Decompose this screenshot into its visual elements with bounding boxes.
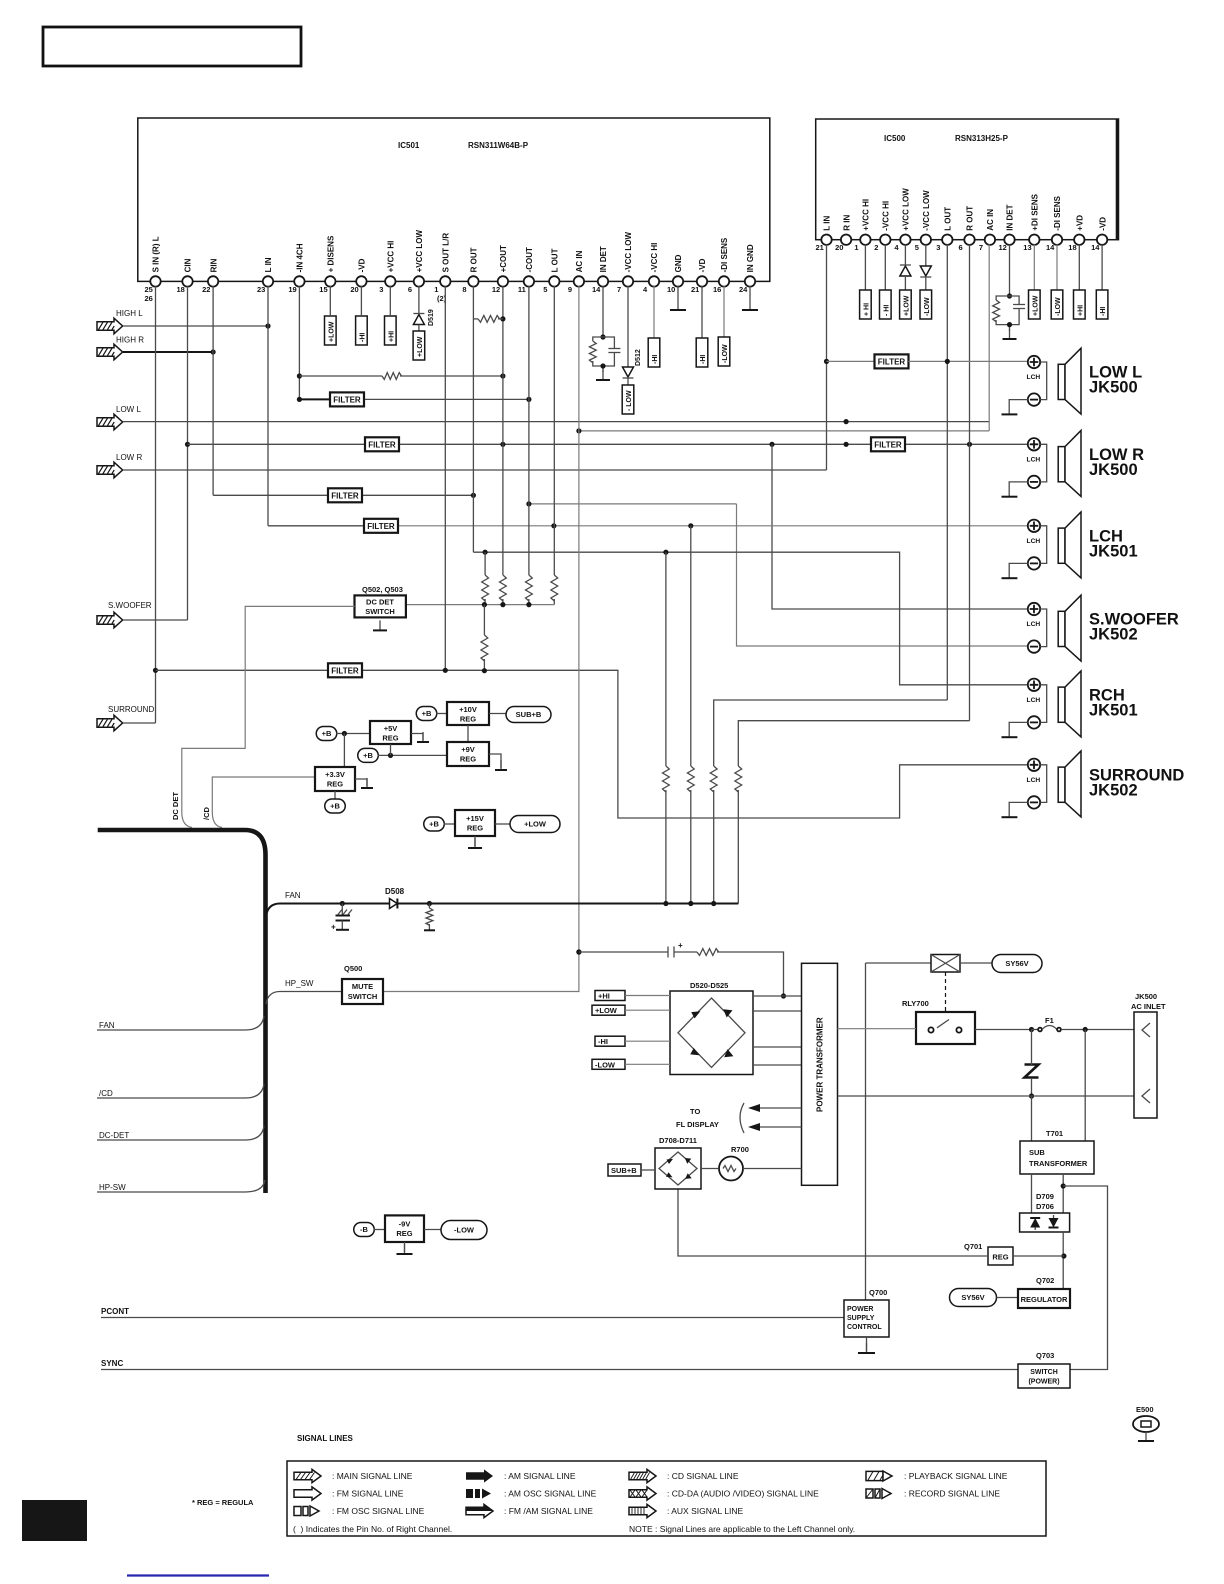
svg-text:POWER TRANSFORMER: POWER TRANSFORMER (816, 1017, 825, 1112)
svg-text:- HI: - HI (883, 305, 890, 316)
svg-text:+HI: +HI (598, 992, 610, 1001)
IC500 pin 20 R IN (835, 214, 851, 252)
legend FM SIGNAL LINE (294, 1487, 404, 1500)
node +COUT row319 (500, 316, 505, 321)
svg-text:-VCC HI: -VCC HI (650, 243, 659, 273)
wire pin21 (701, 286, 703, 338)
IC500 pin 7 AC IN (979, 209, 995, 253)
wire 5v gnd lead (411, 734, 423, 741)
svg-text:T701: T701 (1046, 1129, 1063, 1138)
wire bridge-pt 996 (753, 995, 802, 997)
svg-text:14: 14 (1046, 243, 1055, 252)
svg-text:+LOW: +LOW (328, 321, 335, 342)
wire ic500 pin19 (1101, 244, 1103, 290)
diode D519 (413, 314, 424, 325)
resistor R (det) (481, 635, 488, 661)
wire pin7 a (627, 286, 629, 367)
ground -9V REG (397, 1244, 413, 1254)
svg-text:HP-SW: HP-SW (99, 1183, 126, 1192)
node indet bottom (600, 363, 605, 368)
capacitor C (fan, polarized) (331, 904, 352, 932)
svg-text:R700: R700 (731, 1145, 749, 1154)
filter FILTER (rch pre) (328, 488, 362, 502)
svg-text:3: 3 (936, 243, 940, 252)
svg-text:FILTER: FILTER (368, 440, 396, 449)
wire xbox to oval (960, 962, 992, 964)
svg-text:15: 15 (319, 285, 327, 294)
svg-text:REG: REG (382, 734, 398, 743)
wire lowr row c (906, 443, 1028, 445)
IC500 pin 13 +DI SENS (1023, 193, 1039, 252)
IC501 pin 24 IN GND (739, 244, 755, 294)
wire L OUT res bot (553, 599, 555, 605)
node S IN / FILTER junction (153, 668, 158, 673)
svg-text:: CD SIGNAL LINE: : CD SIGNAL LINE (667, 1471, 739, 1481)
IC501 pin 14 IN DET (592, 246, 608, 294)
wire ic500 pin5 b (925, 277, 927, 290)
wire bridge in -LOW (625, 1063, 670, 1065)
wire HIGH R to RIN (123, 351, 213, 353)
svg-text:+LOW: +LOW (595, 1006, 618, 1015)
svg-text:S IN (R) L: S IN (R) L (152, 236, 161, 272)
title box (43, 27, 301, 66)
wire PCONT (101, 1317, 844, 1319)
svg-text:: AUX SIGNAL LINE: : AUX SIGNAL LINE (667, 1506, 744, 1516)
svg-text:LCH: LCH (1027, 538, 1041, 545)
wire S IN vertical pin25 (155, 286, 157, 723)
svg-text:D519: D519 (428, 309, 435, 326)
wire fan row b (397, 903, 738, 905)
svg-text:IC501: IC501 (398, 141, 420, 150)
svg-text:HIGH L: HIGH L (116, 309, 143, 318)
svg-text:RSN311W64B-P: RSN311W64B-P (468, 141, 529, 150)
filter FILTER (low r pre) (365, 437, 399, 451)
svg-text:R IN: R IN (842, 214, 851, 230)
svg-text:JK500: JK500 (1089, 461, 1138, 479)
wire bridge-pt 1047 (753, 1046, 802, 1048)
wire lch row (399, 525, 1028, 527)
svg-text:FILTER: FILTER (333, 395, 361, 404)
resistor R (sub-b) (697, 949, 719, 956)
terminal E500 chassis (1133, 1416, 1159, 1441)
svg-text:(POWER): (POWER) (1028, 1379, 1059, 1386)
svg-text:: FM /AM SIGNAL LINE: : FM /AM SIGNAL LINE (504, 1506, 593, 1516)
IC500 pin 5 -VCC LOW (915, 190, 931, 252)
fuse/thermal X box (931, 955, 960, 973)
svg-text:-LOW: -LOW (454, 1226, 475, 1235)
svg-text:18: 18 (1068, 243, 1076, 252)
wire R OUT(ic500) vertical (969, 244, 971, 720)
node L IN lowl junction (824, 359, 829, 364)
ground GND pin10 (670, 300, 686, 310)
wire /CD port (97, 1084, 264, 1098)
relay RLY700 (916, 1012, 975, 1044)
fuse F1 (1032, 1026, 1135, 1032)
IC501 pin 21 -VD (691, 258, 707, 294)
wire pin24 gnd (749, 286, 751, 300)
svg-text:+HI: +HI (1077, 305, 1084, 316)
IC501 pin 11 -COUT (518, 247, 534, 294)
ground power supply control (858, 1343, 875, 1353)
value box +LOW (pin15) (325, 316, 337, 345)
wire DC-DET port (97, 1126, 264, 1140)
IC501 pin 8 R OUT (462, 247, 478, 294)
node res bottoms 3 (526, 602, 531, 607)
wire -b 9v (374, 1229, 385, 1231)
ground IN GND pin24 (742, 300, 758, 310)
diodes D709 D706 (1020, 1213, 1070, 1232)
legend box (287, 1461, 1046, 1536)
wire colC b (713, 790, 715, 904)
speaker jack SURROUND JK502 (1002, 751, 1185, 817)
wire swoofer minus path (737, 504, 1028, 646)
legend MAIN SIGNAL LINE (294, 1469, 413, 1482)
regulator +15V REG (455, 810, 495, 836)
wire bridge in +HI (625, 995, 670, 997)
svg-text:FL DISPLAY: FL DISPLAY (676, 1120, 719, 1129)
wire bridge-pt 1011 (753, 1010, 802, 1012)
svg-text:25: 25 (145, 285, 153, 294)
node R OUT row490 (471, 493, 476, 498)
svg-text:SYNC: SYNC (101, 1359, 123, 1368)
svg-text:-9V: -9V (399, 1220, 411, 1229)
bridge rectifier D708-D711 (655, 1148, 701, 1189)
wire xbox lead (866, 962, 932, 964)
svg-text:+DI SENS: +DI SENS (1031, 193, 1040, 230)
wire LOW R row (123, 469, 827, 471)
terminal SY56V (q702) (950, 1289, 997, 1307)
wire pin6 b (418, 325, 420, 332)
svg-text:AC IN: AC IN (575, 250, 584, 272)
svg-text:26: 26 (145, 294, 153, 303)
wire +COUT vertical (502, 286, 504, 575)
node bridge out (781, 993, 786, 998)
wire ic500 pin5 a (925, 244, 927, 266)
svg-text:REG: REG (992, 1253, 1008, 1262)
svg-text:6: 6 (408, 285, 412, 294)
value box -LOW (bridge in) (592, 1059, 625, 1069)
svg-text:-LOW: -LOW (1055, 297, 1062, 316)
svg-text:20: 20 (350, 285, 358, 294)
node +b branch (342, 731, 347, 736)
svg-text:JK502: JK502 (1089, 626, 1138, 644)
svg-text:FILTER: FILTER (367, 522, 395, 531)
capacitor C (ic500 in det) (1013, 305, 1025, 309)
wire -IN 4CH vertical pin19 (298, 286, 300, 399)
wire pt ac2 (838, 1095, 1135, 1097)
IC501 pin 16 -DI SENS (713, 237, 729, 294)
svg-text:R OUT: R OUT (966, 206, 975, 231)
wire lowl filter row a (827, 360, 875, 362)
svg-text:CIN: CIN (184, 258, 193, 272)
terminal SUB+B (506, 707, 551, 723)
wire dcdet out row (406, 604, 554, 606)
IC500 pin 4 +VCC LOW (894, 188, 910, 252)
wire dashed relay (945, 972, 947, 1012)
wire colB net (690, 526, 692, 766)
surge absorber Z (1025, 1065, 1039, 1078)
svg-text:9: 9 (568, 285, 572, 294)
node ic500 indet bottom (1007, 322, 1012, 327)
wire /CD net (212, 777, 315, 812)
blue footer line (127, 1574, 269, 1576)
wire AC link row (579, 430, 989, 432)
input arrow HIGH R (97, 344, 123, 360)
wire q701 left net (678, 1189, 988, 1256)
value box -LOW (pin7) (622, 385, 634, 414)
wire ic500 indet frame (996, 296, 1019, 331)
svg-text:HIGH R: HIGH R (116, 336, 144, 345)
legend FM /AM SIGNAL LINE (466, 1504, 593, 1517)
node fan colC (711, 901, 716, 906)
svg-text:REG: REG (327, 780, 343, 789)
svg-text:-VCC LOW: -VCC LOW (624, 232, 633, 273)
svg-text:FILTER: FILTER (331, 666, 359, 675)
svg-text:10: 10 (667, 285, 675, 294)
connector JK500 AC INLET (1134, 1012, 1157, 1118)
svg-text:: PLAYBACK SIGNAL LINE: : PLAYBACK SIGNAL LINE (904, 1471, 1008, 1481)
svg-text:: AM SIGNAL LINE: : AM SIGNAL LINE (504, 1471, 576, 1481)
svg-text:+VCC LOW: +VCC LOW (902, 188, 911, 231)
wire t701 sec 1 (1031, 1174, 1033, 1215)
resistor R (ic500 in det) (993, 300, 1000, 322)
wire filter1 out (365, 398, 529, 400)
wire bridge-pt 1065 (753, 1064, 802, 1066)
resistor R (in det) (589, 341, 596, 363)
node q703 branch (1061, 1183, 1066, 1188)
svg-text:: AM OSC SIGNAL LINE: : AM OSC SIGNAL LINE (504, 1489, 597, 1499)
input arrow S.WOOFER (97, 612, 123, 628)
node rch colA (663, 550, 668, 555)
wire q703 net (1063, 1186, 1107, 1370)
svg-text:LCH: LCH (1027, 697, 1041, 704)
wire S OUT vertical (444, 286, 446, 670)
svg-text:Q703: Q703 (1036, 1351, 1054, 1360)
svg-text:+15V: +15V (466, 814, 484, 823)
node f1 right (1083, 1027, 1088, 1032)
svg-text:DC DET: DC DET (366, 598, 394, 607)
wire -COUT vertical (528, 286, 530, 575)
wire feedback row b (400, 375, 503, 377)
speaker jack LOW L JK500 (1002, 348, 1143, 414)
wire pin3 (389, 286, 391, 316)
svg-text:-HI: -HI (359, 333, 366, 342)
wire relay to f1 (975, 1029, 1032, 1031)
wire fan res stub (428, 904, 430, 909)
legend AUX SIGNAL LINE (629, 1504, 744, 1517)
wire filter3 lead (213, 494, 327, 496)
legend CD-DA (AUDIO /VIDEO) SIGNAL LINE (629, 1487, 819, 1500)
input arrow HIGH L (97, 318, 123, 334)
diode D (ic500 +vcc low) (900, 265, 911, 276)
node res bottoms 1 (482, 602, 487, 607)
node -COUT row399 (526, 397, 531, 402)
wire rout res lead (498, 318, 503, 320)
svg-text:L OUT: L OUT (551, 248, 560, 272)
legend FM OSC SIGNAL LINE (294, 1506, 425, 1516)
svg-text:Q500: Q500 (344, 964, 362, 973)
resistor R (-COUT load) (526, 575, 533, 601)
svg-text:+B: +B (429, 820, 439, 829)
op-amp IC501 RSN311W64B-P block (138, 118, 770, 281)
wire ic500 pin1 (864, 244, 866, 290)
wire lowl filter row b (909, 360, 1028, 362)
wire colA b (665, 790, 667, 904)
wire ic500 pin18 (1078, 244, 1080, 290)
wire 15v out (495, 823, 510, 825)
wire filter1 lead (299, 398, 329, 400)
node ic500 indet top (1007, 293, 1012, 298)
svg-text:SUB: SUB (1029, 1148, 1045, 1157)
resistor R (rout-cout) (478, 316, 500, 323)
wire HP-SW port (97, 1180, 265, 1192)
ground +5V REG (417, 732, 429, 742)
svg-text:5: 5 (543, 285, 547, 294)
wire indet net frame (593, 337, 615, 372)
svg-text:7: 7 (617, 285, 621, 294)
filter FILTER (lch) (364, 519, 398, 533)
svg-text:-DI SENS: -DI SENS (720, 237, 729, 272)
value box -LOW (ic500 pin5) (920, 290, 932, 319)
svg-text:19: 19 (288, 285, 296, 294)
svg-text:+ HI: + HI (863, 303, 870, 316)
node S OUT filter5 (443, 668, 448, 673)
wire z top (1031, 1030, 1033, 1067)
svg-text:+B: +B (322, 729, 332, 738)
value box -HI (ic500 pin2) (880, 290, 892, 319)
svg-text:6: 6 (959, 243, 963, 252)
wire subb row a (579, 951, 668, 953)
wire pin6 a (418, 286, 420, 313)
wire FAN net (266, 904, 390, 917)
wire pin16 (723, 286, 725, 337)
wire filter4 lead (268, 525, 363, 527)
svg-text:GND: GND (674, 254, 683, 272)
ground in det (596, 370, 610, 380)
wire feedback row (299, 375, 382, 377)
svg-text:8: 8 (462, 285, 466, 294)
IC501 pin 22 RIN (202, 258, 218, 294)
resistor R (rch divider 1) (482, 575, 489, 601)
svg-text:-VD: -VD (698, 258, 707, 272)
value box +LOW (bridge in) (592, 1005, 625, 1015)
wire LOW L row (123, 421, 989, 423)
regulator +5V REG (370, 721, 411, 744)
svg-text:IC500: IC500 (884, 134, 906, 143)
svg-text:RLY700: RLY700 (902, 999, 929, 1008)
arrow to fl display 2 (748, 1123, 802, 1131)
node CIN / filter-row junction (185, 442, 190, 447)
IC501 pin 19 -IN 4CH (288, 243, 304, 294)
wire 5v down (390, 744, 392, 755)
wire ic500 pin4 a (904, 244, 906, 265)
ground +15V REG (468, 838, 482, 848)
regulator Q701 REG (988, 1247, 1013, 1265)
wire 10v out (489, 713, 506, 715)
wire 3.3v gnd lead (355, 779, 367, 786)
svg-text:23: 23 (257, 285, 265, 294)
wire AC IN net (383, 286, 579, 992)
wire r700 to pt (743, 1168, 802, 1170)
IC500 pin 12 IN DET (999, 204, 1015, 252)
speaker jack LOW R JK500 (1002, 431, 1145, 497)
wire L IN(IC500) vertical (826, 244, 828, 470)
svg-text:* REG = REGULA: * REG = REGULA (192, 1498, 254, 1507)
svg-text:-HI: -HI (652, 355, 659, 364)
svg-text:+B: +B (422, 709, 432, 718)
svg-text:: CD-DA (AUDIO /VIDEO) SIGNAL: : CD-DA (AUDIO /VIDEO) SIGNAL LINE (667, 1489, 819, 1499)
ground +9V REG (495, 760, 507, 770)
value box -HI (pin4) (648, 338, 660, 367)
wire dc det bend into bus (182, 812, 192, 828)
resistor R (+COUT load) (500, 575, 507, 601)
svg-text:D520-D525: D520-D525 (690, 981, 728, 990)
wire rch path (473, 552, 1027, 685)
regulator Q702 REGULATOR (1018, 1289, 1070, 1308)
svg-text:21: 21 (816, 243, 824, 252)
svg-text:TO: TO (690, 1107, 700, 1116)
wire 10v to 9v (467, 725, 469, 742)
svg-text:IN GND: IN GND (746, 244, 755, 272)
IC501 pin 20 -VD (350, 258, 366, 294)
node lowl lout ic500 (945, 359, 950, 364)
node fan colB (688, 901, 693, 906)
node ac2 (1029, 1093, 1034, 1098)
input arrow SURROUND (97, 715, 123, 731)
input arrow LOW L (97, 414, 123, 430)
svg-text:+ DISENS: + DISENS (327, 235, 336, 272)
svg-text:FILTER: FILTER (874, 440, 902, 449)
wire ic500 indet (1009, 244, 1011, 296)
wire HIGH L to L IN (123, 325, 268, 327)
value box -HI (ic500 pin19) (1096, 290, 1108, 319)
svg-text:FAN: FAN (285, 891, 301, 900)
value box -HI (pin21) (696, 338, 708, 367)
filter FILTER (low r) (871, 437, 905, 451)
wire pin7 b (627, 378, 629, 385)
resistor R (colA) (663, 766, 670, 792)
wire +b 15v (444, 823, 456, 825)
wire colC net (714, 700, 948, 766)
value box +HI (bridge in) (595, 991, 625, 1001)
value box +HI (ic500 pin1) (860, 290, 872, 319)
node lch res col (688, 523, 693, 528)
svg-text:D708-D711: D708-D711 (659, 1136, 697, 1145)
svg-text:SUPPLY: SUPPLY (847, 1315, 875, 1322)
svg-text:16: 16 (713, 285, 721, 294)
wire -9v gnd lead (404, 1242, 406, 1252)
svg-text:4: 4 (643, 285, 648, 294)
svg-text:-VCC LOW: -VCC LOW (922, 190, 931, 231)
wire psc vertical (865, 963, 867, 1300)
svg-text:+9V: +9V (461, 745, 475, 754)
svg-text:TRANSFORMER: TRANSFORMER (1029, 1159, 1088, 1168)
svg-text:+VCC LOW: +VCC LOW (415, 230, 424, 273)
wire pin4 (653, 286, 655, 338)
svg-text:+3.3V: +3.3V (325, 770, 345, 779)
svg-text:: MAIN SIGNAL LINE: : MAIN SIGNAL LINE (332, 1471, 413, 1481)
wire bridge in -HI (625, 1040, 670, 1042)
wire lowr row a (188, 443, 365, 445)
svg-text:+LOW: +LOW (1032, 295, 1039, 316)
wire CIN vertical pin18 (187, 286, 189, 620)
value box +HI (pin3) (385, 316, 397, 345)
node +COUT row376 (500, 373, 505, 378)
svg-text:Q701: Q701 (964, 1242, 982, 1251)
svg-text:JK500: JK500 (1089, 379, 1138, 397)
IC500 pin 3 L OUT (936, 207, 952, 252)
svg-text:-B: -B (360, 1225, 368, 1234)
